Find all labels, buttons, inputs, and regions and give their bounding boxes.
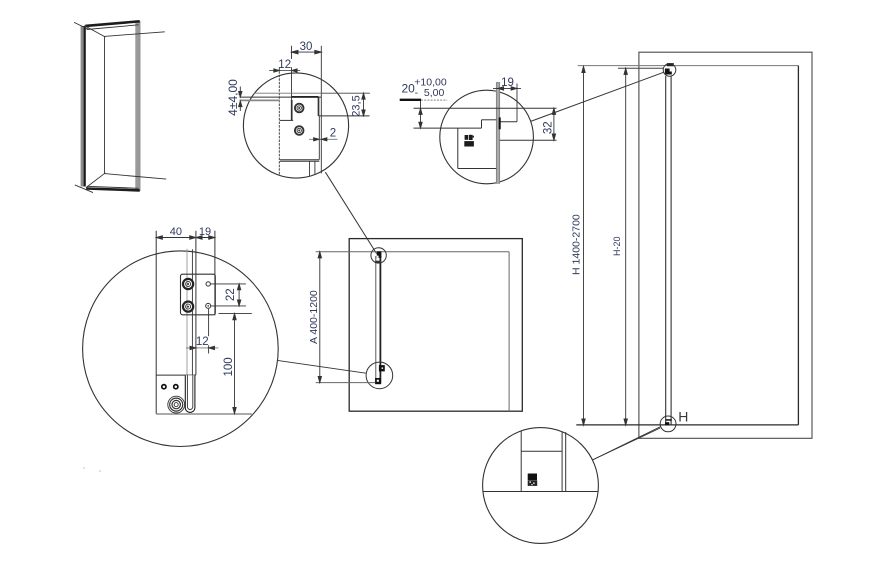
svg-text:100: 100 [223,357,235,376]
svg-text:A 400-1200: A 400-1200 [308,290,320,344]
svg-text:19: 19 [501,77,514,89]
svg-text:19: 19 [199,226,211,238]
svg-text:H-20: H-20 [612,236,622,256]
svg-text:30: 30 [300,41,313,53]
svg-text:12: 12 [278,59,291,71]
svg-text:2: 2 [330,128,336,140]
svg-text:H: H [678,408,688,424]
svg-text:- 5,00: - 5,00 [415,87,445,99]
svg-text:22: 22 [225,288,237,301]
svg-text:23,5: 23,5 [350,95,362,116]
svg-text:4±4,00: 4±4,00 [226,79,240,116]
svg-text:20: 20 [402,82,416,96]
svg-text:32: 32 [542,121,554,134]
svg-text:40: 40 [170,226,182,238]
svg-text:12: 12 [196,336,209,348]
svg-text:H 1400-2700: H 1400-2700 [570,214,582,275]
